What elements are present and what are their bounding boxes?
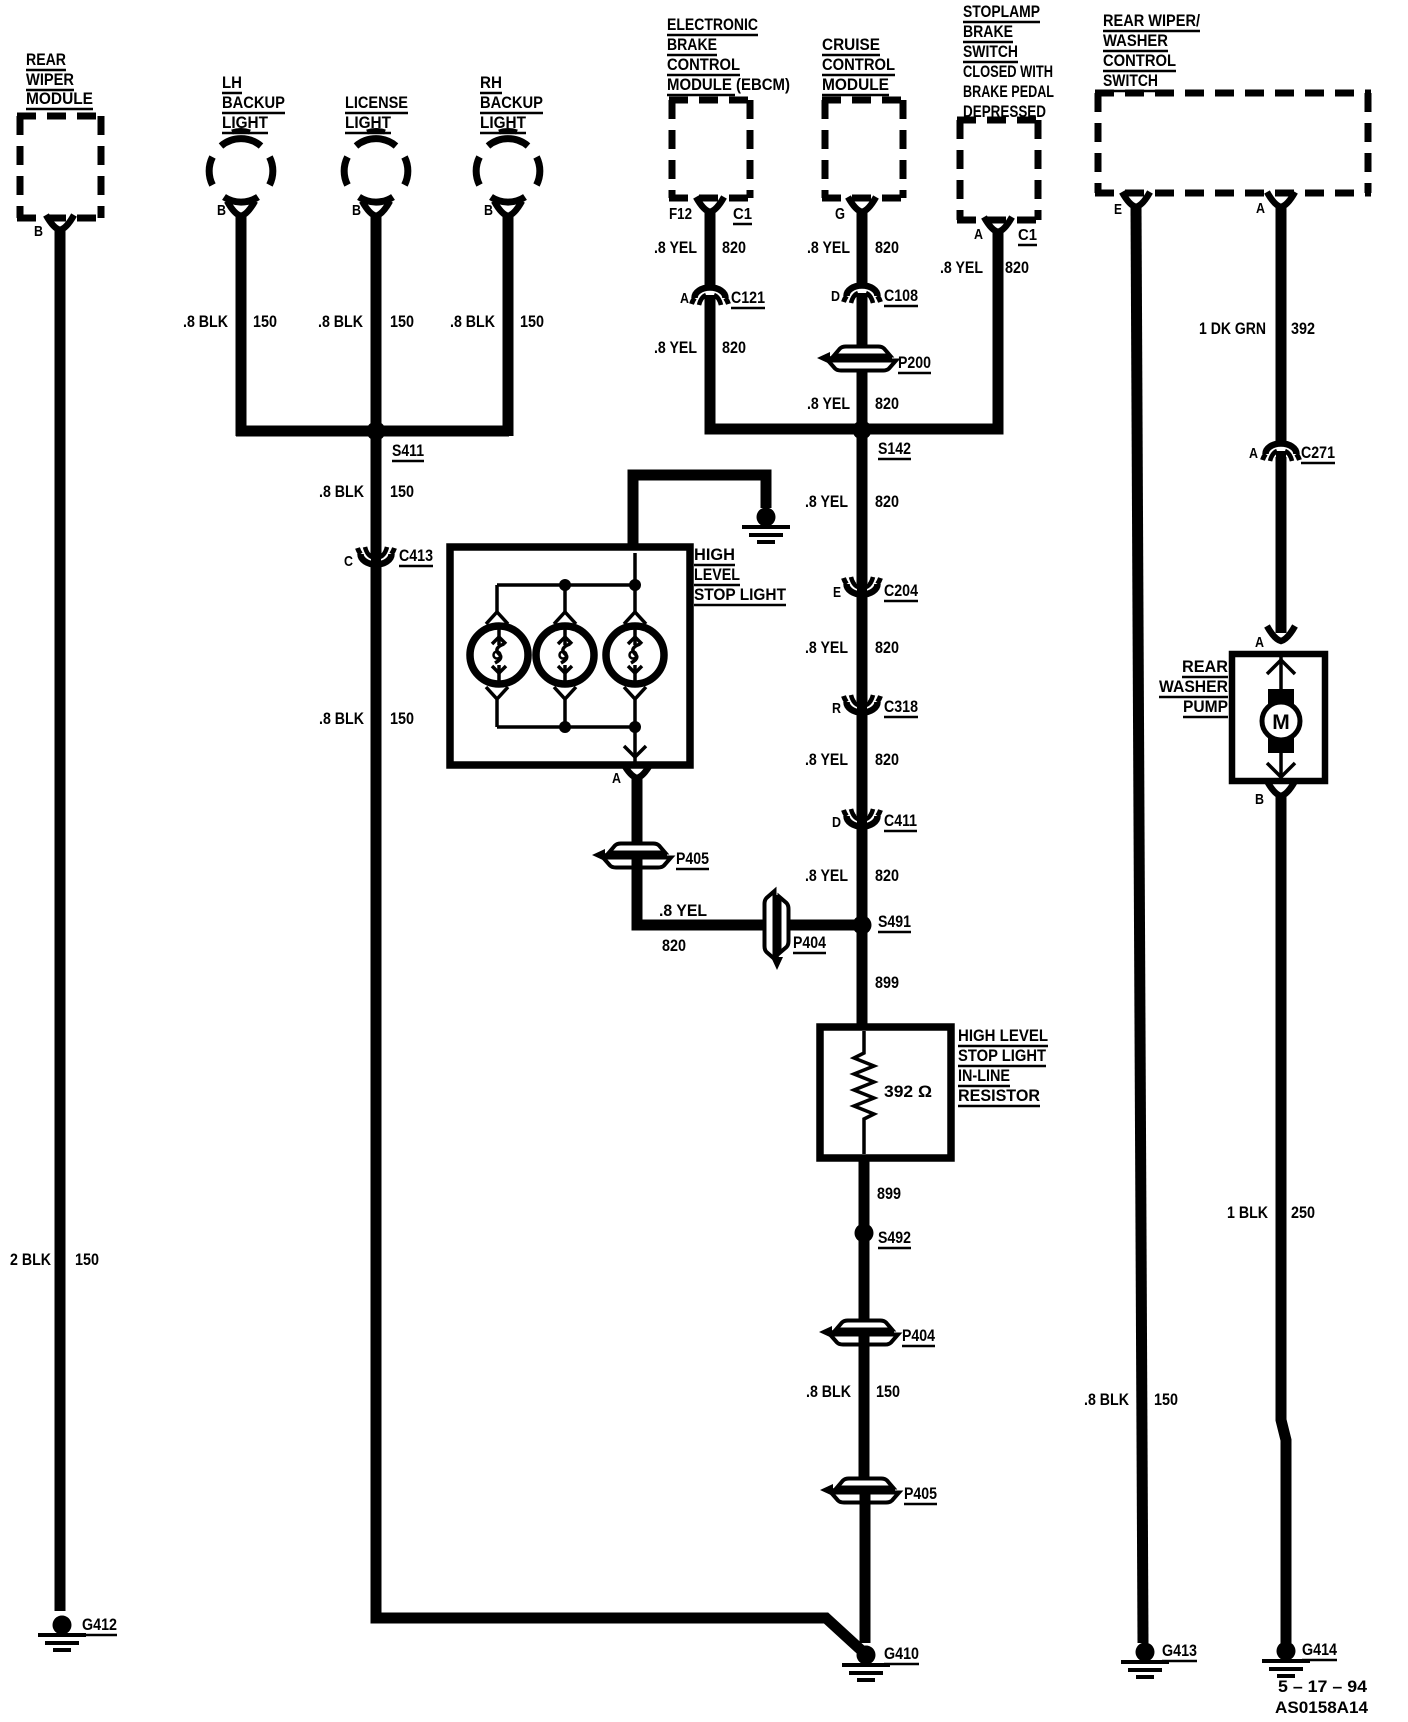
svg-text:P405: P405 xyxy=(676,849,709,868)
svg-text:.8 BLK: .8 BLK xyxy=(450,312,496,331)
svg-text:.8 BLK: .8 BLK xyxy=(319,482,365,501)
svg-text:G413: G413 xyxy=(1162,1641,1197,1660)
svg-text:E: E xyxy=(1114,201,1122,218)
svg-text:C411: C411 xyxy=(884,811,917,830)
LH backup light lamp xyxy=(209,131,273,203)
svg-text:150: 150 xyxy=(390,482,414,501)
svg-text:MODULE: MODULE xyxy=(26,89,93,108)
ground G412 xyxy=(53,1616,72,1635)
wire 2 BLK 150 from rear wiper module to G412 xyxy=(55,229,66,1611)
splice S411 xyxy=(367,422,386,441)
stop light bulb 2 xyxy=(536,626,594,684)
svg-text:STOP LIGHT: STOP LIGHT xyxy=(694,585,787,604)
junction dots on bottom bus xyxy=(559,721,571,733)
svg-text:SWITCH: SWITCH xyxy=(1103,71,1158,90)
rear wiper/washer control switch box xyxy=(1095,93,1371,193)
connector C108 xyxy=(846,286,877,297)
svg-text:250: 250 xyxy=(1291,1203,1315,1222)
wire 1 BLK 250 from pump to G414 xyxy=(1281,795,1286,1643)
svg-text:R: R xyxy=(832,700,841,717)
svg-text:SWITCH: SWITCH xyxy=(963,42,1018,61)
rear wiper module box xyxy=(17,116,104,218)
svg-text:REAR WIPER/: REAR WIPER/ xyxy=(1103,11,1200,30)
grommet P200 xyxy=(817,347,896,371)
svg-text:820: 820 xyxy=(875,750,899,769)
svg-text:S411: S411 xyxy=(392,441,424,460)
wire 1 DK GRN 392 from pin A to C271 xyxy=(1276,206,1287,445)
svg-text:820: 820 xyxy=(875,394,899,413)
svg-text:A: A xyxy=(974,226,983,243)
svg-text:F12: F12 xyxy=(669,206,692,223)
svg-text:820: 820 xyxy=(875,866,899,885)
svg-text:CONTROL: CONTROL xyxy=(667,55,740,74)
svg-text:B: B xyxy=(352,202,361,219)
ground G410 xyxy=(857,1646,876,1665)
svg-text:P405: P405 xyxy=(904,1484,937,1503)
svg-text:IN-LINE: IN-LINE xyxy=(958,1066,1010,1085)
svg-text:B: B xyxy=(484,202,493,219)
svg-text:M: M xyxy=(1272,711,1290,734)
connector C318 xyxy=(846,702,877,713)
svg-text:C1: C1 xyxy=(1018,227,1037,244)
svg-text:.8 YEL: .8 YEL xyxy=(805,750,848,769)
svg-text:820: 820 xyxy=(875,238,899,257)
washer pump motor M xyxy=(1279,657,1283,689)
wire .8 YEL 820 C318 to C411 xyxy=(857,715,868,815)
svg-text:WASHER: WASHER xyxy=(1159,677,1228,696)
svg-text:.8 YEL: .8 YEL xyxy=(659,901,707,920)
connector C271 xyxy=(1266,444,1297,455)
svg-text:CLOSED WITH: CLOSED WITH xyxy=(963,62,1053,81)
svg-text:.8 YEL: .8 YEL xyxy=(805,638,848,657)
svg-text:WASHER: WASHER xyxy=(1103,31,1168,50)
svg-text:REAR: REAR xyxy=(26,50,66,69)
svg-text:.8 YEL: .8 YEL xyxy=(654,338,697,357)
svg-text:150: 150 xyxy=(390,312,414,331)
svg-text:A: A xyxy=(1255,634,1264,651)
connector C411 xyxy=(846,816,877,827)
svg-text:C204: C204 xyxy=(884,581,918,600)
resistor element 392 ohm xyxy=(854,1031,874,1154)
svg-text:HIGH LEVEL: HIGH LEVEL xyxy=(958,1026,1048,1045)
svg-text:C121: C121 xyxy=(731,288,765,307)
chassis ground for high level stop light xyxy=(757,508,776,527)
license light lamp xyxy=(344,131,408,203)
svg-text:.8 BLK: .8 BLK xyxy=(1084,1390,1130,1409)
svg-text:A: A xyxy=(680,290,689,307)
svg-text:G: G xyxy=(835,206,845,223)
wire from stop light box to chassis ground (top) xyxy=(633,475,766,549)
connector C204 xyxy=(846,584,877,595)
svg-text:BRAKE PEDAL: BRAKE PEDAL xyxy=(963,82,1054,101)
svg-text:CRUISE: CRUISE xyxy=(822,35,880,54)
wire 899 S491 to resistor xyxy=(857,925,868,1027)
svg-text:REAR: REAR xyxy=(1182,657,1228,676)
svg-text:2 BLK: 2 BLK xyxy=(10,1250,52,1269)
wire .8 YEL 820 from stoplamp switch to S142 bus xyxy=(860,231,998,429)
wire from license light through S411 and C413 to bottom run into G410 xyxy=(376,215,861,1650)
ground G414 xyxy=(1277,1642,1296,1661)
svg-text:LICENSE: LICENSE xyxy=(345,93,408,112)
splice S492 xyxy=(855,1224,874,1243)
wire .8 YEL 820 from P405 to S491 through P404 xyxy=(637,855,856,925)
wire .8 BLK 150 P404 to P405 xyxy=(859,1332,870,1490)
stop light internal bottom bus xyxy=(497,725,635,729)
svg-text:150: 150 xyxy=(876,1382,900,1401)
svg-text:A: A xyxy=(1249,445,1258,462)
cruise control module box xyxy=(822,100,906,198)
grommet P405 lower xyxy=(820,1479,899,1503)
svg-text:AS0158A14: AS0158A14 xyxy=(1275,1698,1369,1717)
stop light bulb 1 xyxy=(470,626,528,684)
svg-text:5 – 17 – 94: 5 – 17 – 94 xyxy=(1278,1677,1368,1696)
svg-text:BRAKE: BRAKE xyxy=(667,35,717,54)
svg-text:899: 899 xyxy=(875,973,899,992)
svg-text:150: 150 xyxy=(1154,1390,1178,1409)
svg-text:A: A xyxy=(612,770,621,787)
svg-text:LH: LH xyxy=(222,73,242,92)
svg-text:P404: P404 xyxy=(902,1326,935,1345)
svg-text:C1: C1 xyxy=(733,206,752,223)
svg-text:.8 BLK: .8 BLK xyxy=(183,312,229,331)
svg-text:LEVEL: LEVEL xyxy=(694,565,740,584)
svg-text:G410: G410 xyxy=(884,1644,919,1663)
svg-text:WIPER: WIPER xyxy=(26,70,74,89)
svg-text:.8 YEL: .8 YEL xyxy=(805,866,848,885)
grommet P405 upper xyxy=(592,844,671,868)
wire .8 YEL 820 C204 to C318 xyxy=(857,597,868,701)
splice bus wire at S411 xyxy=(236,426,509,437)
wire from stop light pin A to P405 xyxy=(632,777,643,855)
svg-text:.8 YEL: .8 YEL xyxy=(654,238,697,257)
connector C121 xyxy=(695,288,726,299)
svg-text:STOP LIGHT: STOP LIGHT xyxy=(958,1046,1047,1065)
wire .8 YEL 820 C411 to S491 xyxy=(857,829,868,925)
svg-text:CONTROL: CONTROL xyxy=(822,55,895,74)
svg-text:D: D xyxy=(831,288,840,305)
svg-text:392 Ω: 392 Ω xyxy=(884,1082,932,1101)
svg-text:150: 150 xyxy=(520,312,544,331)
high level stop light in-line resistor box xyxy=(820,1027,951,1158)
wire .8 YEL 820 S142 to C204 xyxy=(857,430,868,583)
svg-text:MODULE (EBCM): MODULE (EBCM) xyxy=(667,75,790,94)
high level stop light box xyxy=(450,547,690,765)
svg-text:P404: P404 xyxy=(793,933,826,952)
svg-text:899: 899 xyxy=(877,1184,901,1203)
svg-text:C318: C318 xyxy=(884,697,918,716)
svg-text:820: 820 xyxy=(875,638,899,657)
wire from RH backup light to S411 xyxy=(503,215,514,436)
wire .8 BLK 150 from pin E to G413 xyxy=(1136,206,1143,1643)
stop light bulb 3 xyxy=(606,626,664,684)
wire 899 resistor to S492 xyxy=(859,1158,870,1228)
splice S142 xyxy=(853,421,872,440)
svg-text:C413: C413 xyxy=(399,546,433,565)
svg-text:D: D xyxy=(832,814,841,831)
svg-text:820: 820 xyxy=(722,238,746,257)
svg-text:150: 150 xyxy=(390,709,414,728)
svg-text:S491: S491 xyxy=(878,912,911,931)
svg-text:MODULE: MODULE xyxy=(822,75,889,94)
svg-text:C271: C271 xyxy=(1301,443,1335,462)
svg-text:820: 820 xyxy=(662,936,686,955)
svg-text:.8 YEL: .8 YEL xyxy=(807,238,850,257)
svg-text:1 DK GRN: 1 DK GRN xyxy=(1199,319,1266,338)
svg-text:RESISTOR: RESISTOR xyxy=(958,1086,1040,1105)
svg-text:PUMP: PUMP xyxy=(1183,697,1228,716)
wire from LH backup light to S411 xyxy=(236,215,247,436)
wire .8 YEL 820 from cruise module to S142 xyxy=(857,211,868,431)
svg-text:820: 820 xyxy=(722,338,746,357)
wire .8 YEL 820 from EBCM F12 to S142 bus xyxy=(710,211,860,429)
svg-text:B: B xyxy=(1255,791,1264,808)
svg-text:G412: G412 xyxy=(82,1615,117,1634)
RH backup light lamp xyxy=(476,131,540,203)
svg-text:P200: P200 xyxy=(898,353,931,372)
ground G413 xyxy=(1136,1643,1155,1662)
chevrons above bulbs xyxy=(486,612,646,624)
svg-text:.8 YEL: .8 YEL xyxy=(805,492,848,511)
EBCM box xyxy=(669,100,753,198)
svg-text:BRAKE: BRAKE xyxy=(963,22,1013,41)
svg-text:G414: G414 xyxy=(1302,1640,1337,1659)
svg-text:820: 820 xyxy=(1005,258,1029,277)
svg-text:C: C xyxy=(344,553,353,570)
svg-text:150: 150 xyxy=(75,1250,99,1269)
svg-text:.8 BLK: .8 BLK xyxy=(806,1382,852,1401)
svg-text:B: B xyxy=(217,202,226,219)
stop light internal output lead with arrow xyxy=(633,727,637,765)
wire P405 to G410 xyxy=(860,1490,871,1643)
svg-text:150: 150 xyxy=(253,312,277,331)
stop light internal top bus xyxy=(497,553,635,612)
rear washer pump box xyxy=(1232,654,1325,781)
svg-text:S142: S142 xyxy=(878,439,911,458)
svg-text:STOPLAMP: STOPLAMP xyxy=(963,2,1040,21)
svg-text:BACKUP: BACKUP xyxy=(480,93,543,112)
svg-text:B: B xyxy=(34,223,43,240)
grommet P404 upper xyxy=(765,891,789,970)
stoplamp brake switch box xyxy=(957,120,1041,220)
svg-text:BACKUP: BACKUP xyxy=(222,93,285,112)
svg-text:HIGH: HIGH xyxy=(694,545,735,564)
Y connectors below bulbs xyxy=(486,687,508,727)
splice S491 xyxy=(853,916,872,935)
junction dots on top bus xyxy=(559,579,571,591)
svg-text:.8 YEL: .8 YEL xyxy=(940,258,983,277)
svg-text:RH: RH xyxy=(480,73,502,92)
svg-text:CONTROL: CONTROL xyxy=(1103,51,1176,70)
svg-text:A: A xyxy=(1256,200,1265,217)
svg-text:.8 BLK: .8 BLK xyxy=(319,709,365,728)
wire C271 to rear washer pump xyxy=(1276,457,1287,633)
svg-text:1 BLK: 1 BLK xyxy=(1227,1203,1269,1222)
svg-text:820: 820 xyxy=(875,492,899,511)
wire S492 to P404 xyxy=(859,1238,870,1332)
connector C413 xyxy=(361,554,392,565)
svg-text:S492: S492 xyxy=(878,1228,911,1247)
svg-text:.8 YEL: .8 YEL xyxy=(807,394,850,413)
svg-text:ELECTRONIC: ELECTRONIC xyxy=(667,15,758,34)
svg-text:.8 BLK: .8 BLK xyxy=(318,312,364,331)
grommet P404 lower xyxy=(819,1321,898,1345)
svg-text:C108: C108 xyxy=(884,286,918,305)
svg-text:392: 392 xyxy=(1291,319,1315,338)
svg-text:E: E xyxy=(833,584,841,601)
